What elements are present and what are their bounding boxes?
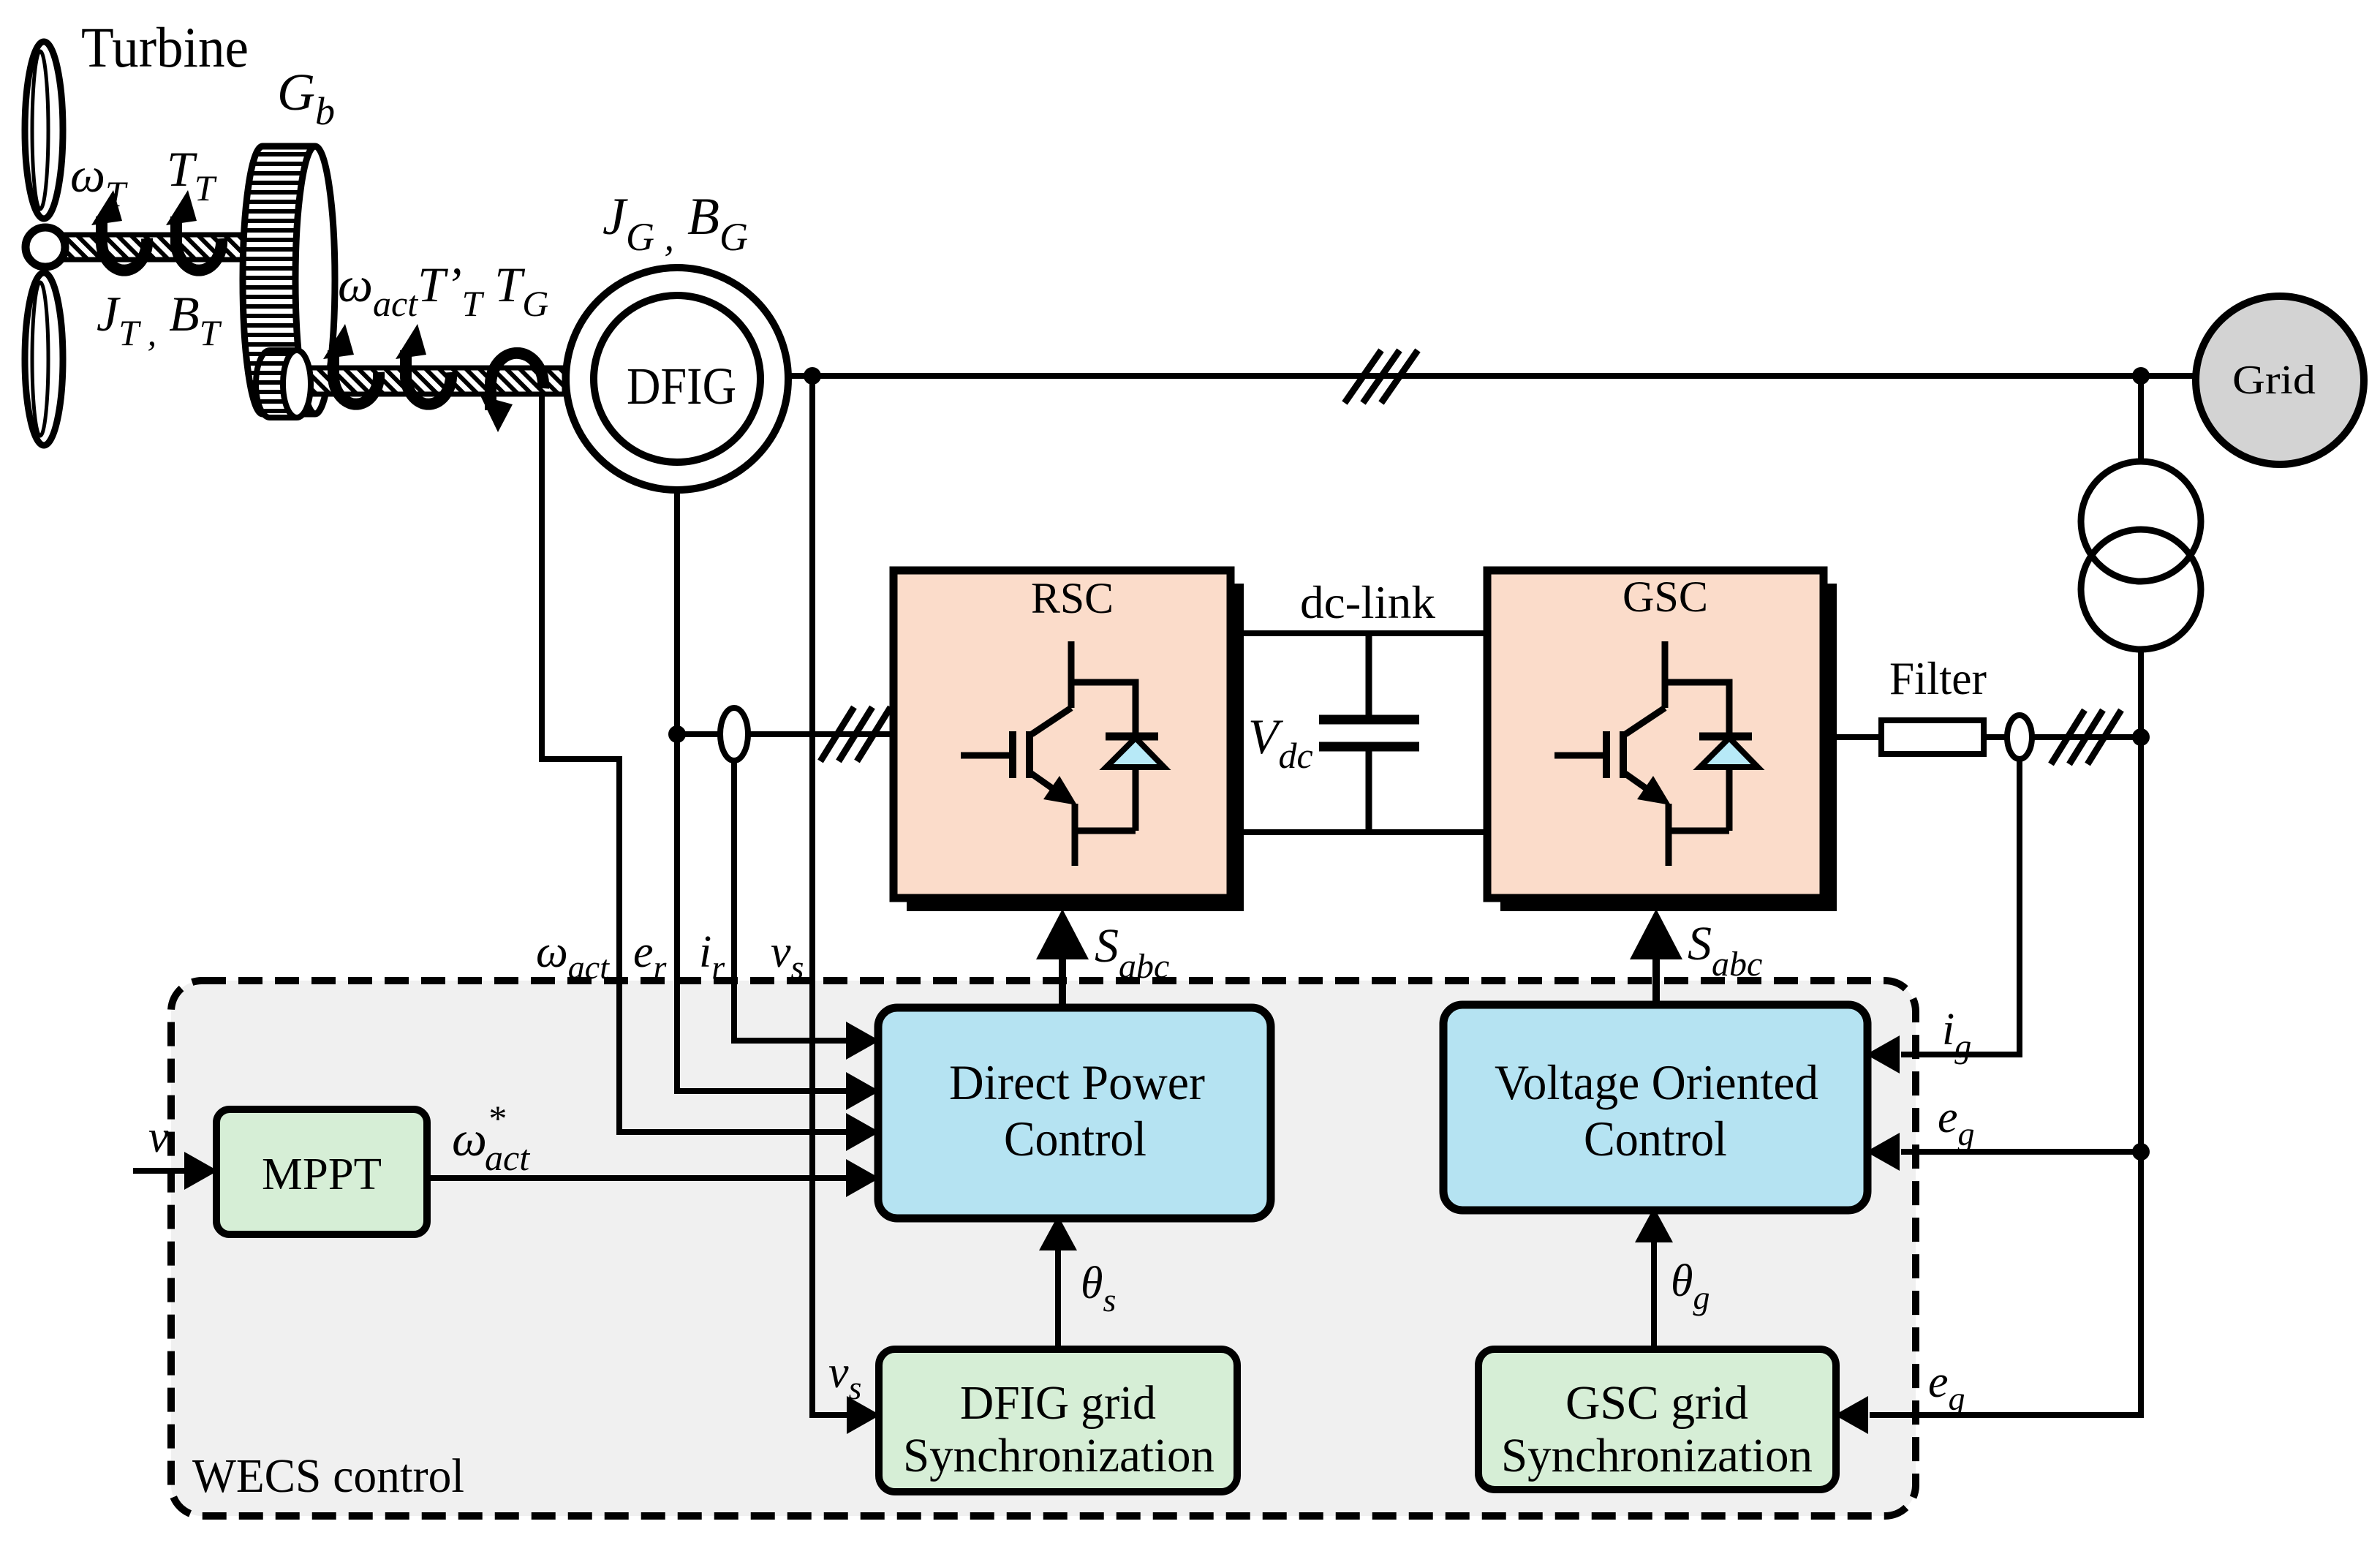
shaft 2 (high speed) [305, 368, 564, 394]
MPPT block [216, 1109, 427, 1234]
wire filter to grid line junction [1984, 734, 2141, 740]
arrow omega_act into DPC [846, 1113, 880, 1151]
node grid junction [2132, 367, 2150, 385]
arrow i_r into DPC [846, 1022, 880, 1060]
svg-text:dc-link: dc-link [1300, 576, 1435, 628]
svg-text:Synchronization: Synchronization [903, 1429, 1214, 1482]
IGBT U1 inside RSC [961, 641, 1164, 866]
sensor ellipse rotor (i_r) [720, 708, 748, 761]
node e_g junction [2132, 1143, 2150, 1161]
arrow i_g into VOC [1866, 1035, 1900, 1074]
svg-text:DFIG grid: DFIG grid [960, 1376, 1156, 1430]
S_abc arrow to RSC [1036, 909, 1089, 1008]
svg-text:WECS control: WECS control [192, 1449, 464, 1503]
gearbox G_b small gear [256, 350, 311, 418]
svg-text:Filter: Filter [1889, 652, 1987, 704]
svg-text:GSC grid: GSC grid [1565, 1376, 1748, 1430]
svg-text:Synchronization: Synchronization [1501, 1429, 1813, 1482]
svg-text:Direct Power: Direct Power [949, 1055, 1205, 1110]
rotation arrow T'_T on shaft2 [396, 324, 451, 404]
three-phase slashes stator wire [1345, 350, 1418, 403]
wire shaft speed sensing to omega_act into DPC [542, 391, 847, 1132]
wire rotor DFIG to RSC [677, 731, 896, 737]
wire dc-link top [1231, 630, 1492, 636]
rotation arrow T_G on shaft2 (inverted) [480, 353, 543, 432]
wire right power line down to GSC grid sync [1870, 737, 2141, 1415]
wire v_s vertical from stator junction down [812, 376, 848, 1415]
svg-text:Turbine: Turbine [81, 15, 249, 79]
node filter junction [2132, 728, 2150, 746]
svg-text:MPPT: MPPT [262, 1150, 382, 1199]
svg-text:Control: Control [1584, 1111, 1727, 1166]
arrow e_g into GSC grid sync [1835, 1396, 1868, 1434]
gearbox G_b large gear [243, 146, 335, 414]
svg-text:Control: Control [1004, 1111, 1146, 1166]
three-phase slashes filter wire [2051, 710, 2121, 764]
arrow e_g into VOC [1866, 1133, 1900, 1171]
wire dc-link bottom [1231, 829, 1492, 835]
wire transformer to filter junction [2138, 647, 2144, 737]
Voltage Oriented Control block [1443, 1005, 1867, 1210]
sensor ellipse grid (i_g) [2007, 715, 2032, 759]
arrow theta_s into DPC [1039, 1215, 1077, 1250]
svg-text:GSC: GSC [1622, 573, 1708, 621]
arrow v into MPPT [184, 1152, 218, 1190]
arrow e_r into DPC [846, 1072, 880, 1110]
IGBT U2 inside GSC [1554, 641, 1758, 866]
rotation arrow omega_T on shaft1 [91, 190, 147, 271]
turbine hub [26, 227, 65, 267]
svg-text:DFIG: DFIG [627, 357, 736, 415]
rotation arrow T_T on shaft1 [166, 190, 222, 271]
Direct Power Control block [878, 1008, 1271, 1218]
RSC converter box [894, 570, 1244, 911]
node stator junction [804, 367, 821, 385]
wire i_g from sensor to VOC [1901, 757, 2020, 1055]
wire theta_g stem [1651, 1239, 1657, 1349]
wire DFIG bottom to rotor junction and e_r down to DPC [677, 493, 847, 1091]
GSC grid Synchronization block [1478, 1349, 1836, 1490]
S_abc arrow to GSC [1630, 909, 1682, 1005]
arrow v_s into DFIG grid sync [847, 1396, 880, 1434]
arrow omega_act* into DPC [846, 1159, 880, 1197]
turbine blade upper [25, 42, 63, 219]
svg-text:Voltage Oriented: Voltage Oriented [1495, 1055, 1818, 1110]
wire i_r from sensor down to DPC [734, 759, 847, 1041]
three-phase slashes rotor wire [820, 707, 891, 761]
node rotor junction [668, 725, 686, 743]
transformer T1 [2081, 461, 2201, 649]
Filter block [1881, 720, 1984, 754]
wire e_g tap to VOC [1901, 1149, 2141, 1155]
wire stator main DFIG to Grid [790, 373, 2195, 379]
wire v input to MPPT [133, 1168, 185, 1174]
DFIG grid Synchronization block [879, 1349, 1237, 1492]
svg-text:Grid: Grid [2232, 358, 2316, 403]
svg-text:v: v [148, 1112, 169, 1162]
Grid circle [2196, 296, 2364, 464]
DFIG machine [566, 268, 788, 490]
svg-text:RSC: RSC [1031, 574, 1114, 622]
wire theta_s stem [1055, 1247, 1061, 1349]
wire GSC output to filter [1821, 734, 1881, 740]
turbine blade lower [25, 273, 63, 445]
GSC converter box [1487, 570, 1837, 911]
capacitor C dc-link [1319, 633, 1419, 832]
rotation arrow omega_act on shaft2 [323, 324, 379, 404]
shaft 1 (low speed) [64, 235, 246, 260]
WECS control dashed container [171, 981, 1916, 1516]
wire MPPT output to DPC [427, 1175, 847, 1181]
wire grid junction down to transformer [2138, 376, 2144, 464]
arrow theta_g into VOC [1635, 1207, 1673, 1242]
